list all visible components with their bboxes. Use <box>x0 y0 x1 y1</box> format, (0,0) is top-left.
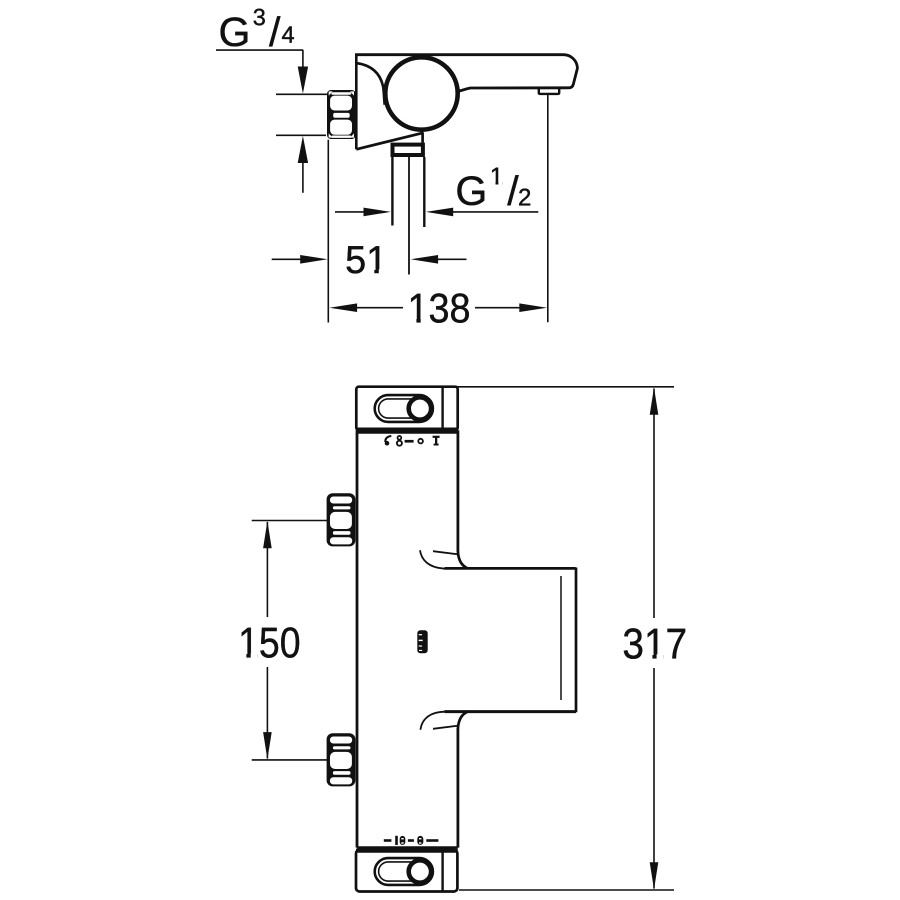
svg-text:G: G <box>218 9 250 55</box>
neck stub <box>421 133 424 143</box>
inlet nut lower <box>327 733 356 786</box>
dimension 317 reference bottom <box>459 889 674 891</box>
pipe G 1/2 edges <box>391 157 393 226</box>
bottom slide knob <box>409 860 431 882</box>
top slide slot inner <box>379 399 429 418</box>
column bottom edge <box>357 846 458 848</box>
dimension 150 line and arrows <box>266 522 268 617</box>
svg-text:G: G <box>455 168 487 214</box>
top block divider <box>441 388 443 430</box>
pipe centreline <box>408 157 410 275</box>
lower icon row <box>384 836 439 845</box>
svg-text:317: 317 <box>622 619 687 667</box>
svg-text:138: 138 <box>407 286 470 332</box>
top fillet arc <box>420 550 445 568</box>
column top edge <box>357 431 458 433</box>
dimension G 3/4 lower arrow <box>298 136 308 163</box>
reference line nut top <box>276 93 327 95</box>
dimension 138 <box>329 303 357 312</box>
top block thick bottom edge <box>356 428 458 432</box>
top slide knob <box>409 397 431 419</box>
inlet nut upper <box>327 493 356 546</box>
bottom end block <box>356 850 457 892</box>
GROHE logo mark <box>417 630 427 653</box>
top outlet block <box>356 387 457 430</box>
dimension 150 reference top <box>252 520 327 522</box>
temperature icon row <box>385 436 440 446</box>
dimension 317 line and arrows <box>653 389 655 619</box>
faucet body left edge <box>355 55 358 150</box>
aerator <box>539 88 559 94</box>
dimension G 1/2 right arrow <box>426 208 453 217</box>
svg-text:4: 4 <box>281 22 294 48</box>
bottom slide slot inner <box>379 862 429 881</box>
svg-text:1: 1 <box>490 163 503 190</box>
svg-text:150: 150 <box>238 619 300 667</box>
dimension G 1/2 left arrow <box>335 211 366 213</box>
label G 3/4 <box>218 4 294 55</box>
pipe collar <box>393 145 423 155</box>
svg-text:3: 3 <box>253 4 266 30</box>
dimension 317 reference top <box>456 386 674 388</box>
bottom block divider <box>441 851 443 892</box>
dimension 51 <box>272 258 301 260</box>
dimension 150 reference bottom <box>252 759 327 761</box>
faucet body top edge, spout tip and underside <box>355 55 577 92</box>
column left edge <box>356 430 359 847</box>
svg-text:2: 2 <box>518 184 531 211</box>
column right edge lower <box>456 728 459 848</box>
bottom slide slot outer <box>375 858 433 885</box>
dimension G 3/4 upper arrow <box>302 50 304 67</box>
spout inner line <box>560 576 562 700</box>
body bottom diagonal <box>356 133 423 150</box>
union nut G 3/4 (side view) <box>327 90 356 139</box>
column right edge upper <box>456 430 459 552</box>
extension line aerator <box>547 95 549 322</box>
top slide slot outer <box>375 395 433 422</box>
label G 1/2 <box>455 163 531 214</box>
corner curve below spout <box>458 712 468 729</box>
bottom block thick top edge <box>356 849 458 853</box>
spout bottom edge <box>445 710 577 713</box>
extension line nut face <box>327 140 329 323</box>
corner curve into spout top <box>458 552 468 569</box>
spout top edge <box>445 567 576 570</box>
bottom fillet arc <box>420 712 444 730</box>
svg-text:51: 51 <box>345 238 387 282</box>
reference line nut bottom <box>276 134 326 136</box>
leader line G 3/4 <box>216 49 303 51</box>
cartridge circle <box>385 57 457 129</box>
bottom step line <box>433 726 459 729</box>
glyph foot masks to match plain-stem "1" of the source drawing <box>240 182 664 660</box>
svg-text:/: / <box>269 9 281 55</box>
escutcheon curve <box>357 63 385 105</box>
spout right edge <box>575 568 578 713</box>
top step line <box>433 551 459 554</box>
